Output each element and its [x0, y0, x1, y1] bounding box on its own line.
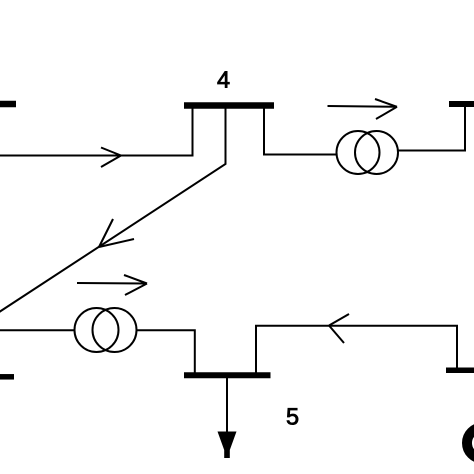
bus bar bottom-left (cut off at edge): [0, 374, 14, 380]
flow arrow above T2 (pointing right): [77, 275, 147, 295]
bus bar top-left (cut off at edge): [0, 101, 16, 108]
flow arrow on wire (pointing left): [329, 314, 349, 343]
label 4: [218, 71, 230, 87]
load arrow down from bus 5: [218, 377, 237, 458]
wire from T1 to top-right bus: [398, 106, 465, 151]
bus 4 bar: [184, 102, 274, 109]
flow arrow above T1 (pointing right): [328, 99, 398, 119]
wire from T2 to bus 5: [137, 330, 195, 373]
wire from bus 5 right, up and right to bottom-right bus: [256, 326, 457, 373]
transformer T1 (two overlapping circles): [337, 131, 399, 174]
bus 5 bar: [184, 372, 271, 378]
label 5: [287, 408, 298, 424]
bus bar bottom-right (cut off at edge): [446, 368, 474, 374]
generator circle bottom-right (cut off at edge): [467, 428, 474, 459]
wire from bus 4 right to transformer T1: [264, 106, 337, 155]
bus bar top-right (cut off at edge): [449, 101, 474, 107]
wire from bus 4 diagonal down-left to left edge: [0, 106, 226, 313]
wire from left edge to bus 4: [0, 106, 193, 156]
flow arrow on wire (pointing right): [101, 148, 121, 168]
flow arrow on diagonal (pointing down-left): [99, 219, 134, 247]
wire from left edge to transformer T2: [0, 329, 75, 331]
transformer T2 (two overlapping circles): [75, 308, 137, 352]
